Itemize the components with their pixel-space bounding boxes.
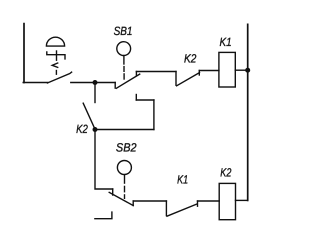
wire K1 contact to K2 coil bbox=[198, 200, 220, 202]
button SB1 link dash 2 bbox=[123, 74, 125, 79]
contact SB1 lower terminal tick bbox=[135, 95, 137, 101]
bell hammer chevron bbox=[52, 63, 58, 67]
wire K1 coil to right rail bbox=[235, 69, 247, 71]
wire holding branch horizontal bbox=[95, 129, 154, 131]
bell mechanical link dash bbox=[55, 71, 57, 75]
contact K1 right tick bbox=[197, 201, 199, 206]
contact SB2 unused terminal stub bbox=[95, 212, 112, 219]
contact K2 right tick bbox=[198, 71, 200, 76]
svg-text:K1: K1 bbox=[220, 35, 232, 49]
wire K2 coil to right rail bbox=[236, 199, 248, 201]
node junction dot C bbox=[93, 127, 98, 132]
node junction dot A bbox=[93, 80, 98, 85]
contact K2 holding blade bbox=[83, 103, 94, 128]
svg-text:SB1: SB1 bbox=[114, 24, 133, 38]
svg-text:K2: K2 bbox=[184, 51, 197, 65]
contact K2 blade bbox=[177, 73, 200, 86]
node junction dot B bbox=[245, 68, 250, 73]
bell HA gong dome bbox=[46, 37, 64, 46]
bell striker bar bbox=[47, 52, 65, 59]
contact SB1 left terminal step bbox=[114, 83, 116, 89]
wire left branch down to SB2 bbox=[95, 130, 113, 190]
wire bell contact to SB1 bbox=[71, 82, 115, 84]
contact SB1 upper terminal tick bbox=[135, 72, 137, 76]
wire K2 contact to K1 coil bbox=[199, 70, 219, 72]
wire SB1 lower terminal across bbox=[136, 99, 154, 101]
wire left rail bottom horizontal to bell contact bbox=[23, 82, 48, 84]
button SB1 head circle bbox=[117, 42, 131, 56]
relay coil K1 bbox=[219, 52, 235, 87]
button SB1 stem bbox=[123, 56, 125, 64]
button SB2 stem bbox=[124, 175, 126, 183]
contact K1 left step bbox=[165, 201, 167, 216]
wire SB2 to K1 contact bbox=[133, 200, 166, 202]
contact SB2 right step bbox=[132, 201, 134, 206]
wire SB1 to K2 contact bbox=[136, 71, 176, 73]
button SB2 head circle bbox=[117, 161, 131, 175]
svg-text:K1: K1 bbox=[177, 173, 188, 187]
contact SB2 blade bbox=[109, 192, 133, 205]
contact K2 holding fixed lead bbox=[94, 83, 96, 103]
contact SB2 left tick bbox=[112, 189, 114, 195]
svg-text:K2: K2 bbox=[220, 166, 231, 180]
wire left supply rail vertical bbox=[23, 24, 25, 83]
bell interrupter contact blade bbox=[47, 72, 71, 83]
contact K1 blade bbox=[167, 204, 197, 216]
relay coil K2 bbox=[219, 183, 235, 219]
button SB2 link dash 1 bbox=[124, 186, 126, 191]
button SB1 link dash 1 bbox=[123, 67, 125, 72]
bell striker stem bbox=[56, 51, 58, 60]
svg-text:K2: K2 bbox=[76, 122, 88, 136]
contact K2 left step bbox=[175, 72, 177, 86]
contact SB1 blade bbox=[116, 74, 139, 88]
wire right supply rail vertical bbox=[247, 24, 249, 200]
wire down to holding branch bbox=[153, 100, 155, 130]
svg-text:SB2: SB2 bbox=[116, 141, 137, 155]
button SB2 link dash 2 bbox=[124, 195, 126, 198]
